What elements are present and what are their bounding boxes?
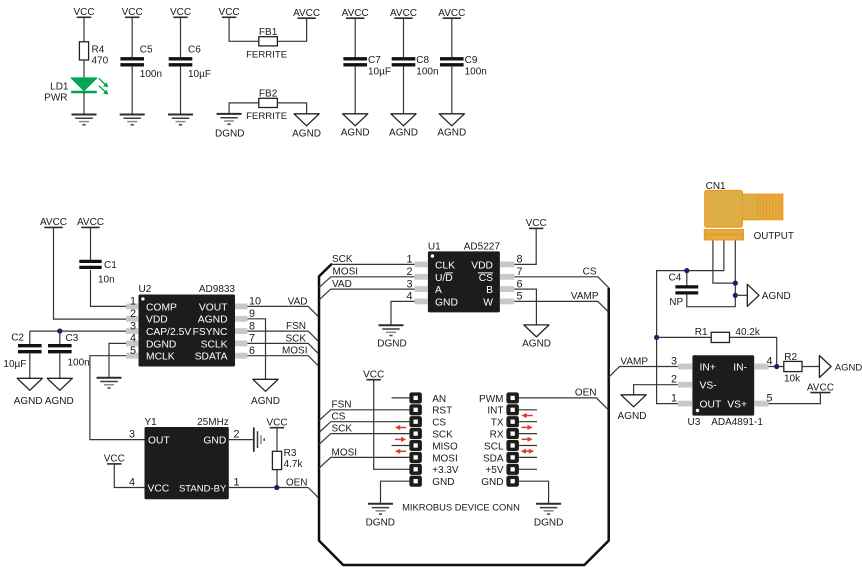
wire R2 to AGND — [802, 366, 819, 368]
svg-text:VCC: VCC — [363, 370, 384, 381]
svg-text:VAD: VAD — [332, 279, 352, 290]
svg-text:Y1: Y1 — [145, 417, 158, 428]
power net AVCC (U3 VS+) — [769, 382, 834, 403]
label mikrobus device conn — [402, 502, 520, 513]
svg-text:STAND-BY: STAND-BY — [179, 484, 227, 495]
svg-text:SDA: SDA — [483, 453, 504, 464]
svg-text:10k: 10k — [784, 373, 801, 384]
power net VCC (Y1) — [104, 454, 145, 488]
wire R4 to LED — [83, 60, 85, 78]
svg-text:AGND: AGND — [251, 396, 280, 407]
svg-text:AGND: AGND — [45, 396, 74, 407]
U2 pin stubs — [126, 304, 247, 359]
wire R1 to IN- — [730, 337, 777, 366]
connector CN1 SMA — [704, 181, 794, 242]
ground DGND (FB2 left) — [215, 114, 244, 139]
wire C1 to U2 pin1 — [91, 270, 127, 307]
svg-text:DGND: DGND — [534, 518, 563, 529]
svg-text:VCC: VCC — [170, 7, 191, 18]
svg-text:CLK: CLK — [435, 260, 455, 271]
ground (C6 column) — [168, 115, 193, 125]
ground AGND (C8 column) — [389, 114, 418, 139]
ground (C5 column) — [120, 115, 145, 125]
svg-text:DGND: DGND — [215, 128, 244, 139]
wire R3 to OEN node — [276, 470, 278, 488]
ground (Y1 GND) — [254, 427, 264, 451]
capacitor C3 100n — [48, 331, 90, 368]
svg-text:VAMP: VAMP — [620, 356, 648, 367]
svg-text:GND: GND — [432, 477, 454, 488]
net VAMP (U1 W to bus) — [514, 291, 608, 312]
svg-text:AGND: AGND — [389, 127, 418, 138]
svg-text:VCC: VCC — [73, 7, 94, 18]
ground (U2 DGND) — [97, 378, 122, 388]
wire U2 DGND pin4 — [109, 343, 126, 377]
svg-text:AVCC: AVCC — [77, 217, 104, 228]
svg-text:B: B — [486, 285, 493, 296]
svg-text:MOSI: MOSI — [332, 447, 358, 458]
capacitor C1 10n — [79, 260, 117, 286]
arrow SPI in (left) — [395, 425, 406, 430]
power net AVCC (C7 column) — [342, 8, 369, 57]
wire U1 B to AGND — [514, 289, 536, 325]
svg-text:U3: U3 — [688, 417, 701, 428]
svg-text:FB2: FB2 — [259, 89, 278, 100]
svg-text:C5: C5 — [140, 44, 153, 55]
svg-text:+5V: +5V — [485, 465, 503, 476]
IC op-amp U3 ADA4891-1 — [688, 355, 764, 428]
svg-text:C7: C7 — [368, 55, 381, 66]
Y1 pin numbers — [129, 429, 240, 489]
header left pin names — [432, 394, 459, 488]
power net VCC (C6 column) — [170, 7, 191, 57]
wire DGND to FB2 — [229, 103, 259, 114]
U2 pin numbers — [130, 296, 261, 357]
svg-text:CS: CS — [479, 273, 493, 284]
wire U1 GND pin4 — [391, 301, 415, 325]
net VAMP (bus to U3 IN+) — [609, 356, 678, 377]
svg-text:3: 3 — [129, 429, 135, 441]
ground AGND (R2) — [819, 356, 862, 378]
node R1 junction — [654, 335, 659, 340]
net SCK (U2 SCLK) — [247, 333, 319, 354]
wire FB2 to AGND — [277, 103, 306, 114]
svg-text:AVCC: AVCC — [390, 8, 417, 19]
svg-text:DGND: DGND — [366, 518, 395, 529]
svg-text:MCLK: MCLK — [146, 352, 175, 363]
power net AVCC (C8 column) — [390, 8, 417, 57]
svg-text:CN1: CN1 — [706, 181, 726, 192]
ground AGND (FB2 right) — [292, 114, 321, 140]
svg-text:FB1: FB1 — [259, 27, 278, 38]
svg-text:FSN: FSN — [332, 400, 352, 411]
svg-text:AGND: AGND — [341, 127, 370, 138]
svg-text:W: W — [483, 297, 493, 308]
svg-text:1: 1 — [671, 392, 677, 404]
resistor R3 4.7k — [272, 448, 303, 470]
svg-text:DGND: DGND — [377, 338, 406, 349]
svg-text:VCC: VCC — [104, 454, 125, 465]
svg-text:NP: NP — [669, 297, 683, 308]
arrow SPI in2 (left) — [395, 449, 406, 454]
svg-text:AD5227: AD5227 — [464, 241, 501, 252]
arrow SDA (right) — [521, 449, 534, 454]
ground AGND (U3 VS-) — [618, 395, 647, 422]
net CS (bus to CS) — [319, 412, 409, 433]
svg-text:ADA4891-1: ADA4891-1 — [711, 417, 763, 428]
wire LED to ground — [83, 92, 85, 115]
ground DGND (U1) — [377, 325, 406, 349]
capacitor C9 100n — [440, 55, 487, 78]
arrow RX (right) — [522, 437, 533, 442]
wire U2 AGND pin9 — [247, 319, 265, 380]
ground AGND (C3) — [45, 378, 74, 407]
power net VCC (C5 column) — [122, 7, 143, 57]
wire C6 to ground — [180, 66, 182, 115]
svg-text:C6: C6 — [188, 44, 201, 55]
svg-text:5: 5 — [130, 345, 136, 357]
LED LD1 PWR — [44, 78, 108, 104]
resistor R4 — [79, 42, 108, 67]
svg-text:C1: C1 — [104, 260, 117, 271]
power net VCC (U1 VDD) — [514, 218, 546, 264]
svg-text:1: 1 — [234, 476, 240, 488]
svg-text:2: 2 — [130, 308, 136, 320]
svg-text:MISO: MISO — [432, 441, 458, 452]
power net AVCC (to C1/COMP) — [77, 217, 104, 260]
U2 pin names — [146, 302, 228, 362]
svg-text:4.7k: 4.7k — [284, 459, 304, 470]
svg-text:AN: AN — [432, 394, 446, 405]
net SCK (bus to U1 CLK) — [331, 254, 414, 265]
svg-text:AGND: AGND — [198, 315, 228, 326]
IC U2 AD9833 — [139, 284, 236, 367]
svg-text:CS: CS — [583, 266, 597, 277]
svg-text:GND: GND — [203, 436, 226, 447]
svg-text:RX: RX — [490, 430, 504, 441]
svg-text:SCK: SCK — [285, 333, 306, 344]
svg-text:470: 470 — [92, 56, 109, 67]
net MOSI (U2 SDATA) — [247, 346, 319, 367]
wire C5 to ground — [131, 66, 133, 115]
svg-text:SCK: SCK — [332, 424, 353, 435]
wire C8 to AGND — [403, 66, 405, 114]
ground AGND (U1 B) — [522, 325, 551, 350]
node OEN junction — [274, 485, 279, 490]
net VAD (U2 VOUT) — [247, 296, 319, 317]
ground DGND (right header) — [534, 504, 563, 529]
svg-text:AVCC: AVCC — [342, 8, 369, 19]
svg-text:AGND: AGND — [835, 362, 862, 373]
svg-text:MOSI: MOSI — [432, 453, 458, 464]
svg-text:U1: U1 — [428, 241, 441, 252]
svg-text:PWR: PWR — [44, 93, 67, 104]
wire CN1 left pin — [713, 240, 735, 283]
ground AGND (C9 column) — [437, 114, 466, 139]
U1 pin stubs — [415, 262, 515, 305]
svg-text:100n: 100n — [140, 69, 162, 80]
svg-text:40.2k: 40.2k — [735, 327, 760, 338]
IC U1 AD5227 — [428, 241, 500, 312]
svg-text:SCK: SCK — [332, 254, 353, 265]
capacitor C2 10uF — [3, 331, 41, 370]
power net VCC (R3) — [266, 418, 287, 452]
arrow SPI out (left) — [395, 437, 406, 442]
svg-text:FERRITE: FERRITE — [246, 50, 287, 61]
svg-text:VAMP: VAMP — [571, 291, 599, 302]
header mikrobus right (PWM..GND) — [506, 392, 519, 486]
svg-text:AGND: AGND — [14, 396, 43, 407]
U1 pin names — [435, 260, 493, 308]
svg-text:VDD: VDD — [471, 260, 493, 271]
ground AGND (U2 pin9) — [251, 379, 280, 407]
svg-text:R4: R4 — [92, 44, 105, 55]
wire header GND to DGND — [381, 481, 410, 504]
svg-text:CS: CS — [332, 412, 346, 423]
U3 pin stubs — [678, 364, 769, 407]
node IN- junction — [774, 364, 779, 369]
wire C4 bottom to shield — [687, 240, 736, 307]
svg-text:A: A — [435, 285, 442, 296]
wire U2 MCLK to Y1 OUT — [90, 356, 145, 440]
svg-text:GND: GND — [481, 477, 503, 488]
svg-text:U2: U2 — [139, 284, 152, 295]
svg-text:4: 4 — [130, 333, 136, 345]
svg-text:IN+: IN+ — [700, 363, 716, 374]
svg-text:OEN: OEN — [575, 387, 597, 398]
U3 pin names — [700, 363, 748, 411]
svg-text:MOSI: MOSI — [282, 346, 308, 357]
wire U3 OUT feedback — [657, 271, 724, 404]
net MOSI (bus to U1 U/D) — [319, 267, 415, 288]
svg-text:FERRITE: FERRITE — [246, 111, 287, 122]
node C4 top junction — [684, 268, 689, 273]
svg-text:OUT: OUT — [148, 436, 170, 447]
wire AN stub — [392, 397, 410, 399]
svg-text:2: 2 — [671, 374, 677, 386]
svg-text:C9: C9 — [465, 55, 478, 66]
wire C2 to AGND — [29, 354, 31, 379]
mikrobus device outline (bus) — [319, 264, 609, 565]
svg-text:AVCC: AVCC — [40, 217, 67, 228]
header right stub wires — [519, 410, 537, 470]
svg-text:10µF: 10µF — [188, 69, 211, 80]
svg-text:C4: C4 — [669, 272, 682, 283]
svg-text:OEN: OEN — [286, 477, 308, 488]
svg-text:C8: C8 — [416, 55, 429, 66]
svg-text:SCLK: SCLK — [201, 339, 228, 350]
net OEN (Y1 STAND-BY) — [229, 477, 319, 498]
net FSN (U2 FSYNC) — [247, 321, 319, 342]
svg-text:VAD: VAD — [288, 296, 308, 307]
svg-text:CS: CS — [432, 418, 446, 429]
wire shield to AGND — [735, 294, 747, 296]
arrow INT (right) — [522, 413, 533, 418]
ferrite bead FB2 — [246, 89, 287, 122]
wire U2 CAP/2.5V to C2 C3 — [30, 330, 126, 332]
net OEN (PWM to bus) — [519, 387, 609, 410]
net FSN (bus to RST) — [319, 400, 409, 421]
net VAD (bus to U1 A) — [319, 279, 415, 300]
power net AVCC (to U2 VDD) — [40, 217, 126, 319]
wire C3 to AGND — [59, 354, 61, 379]
oscillator Y1 25MHz — [145, 417, 229, 499]
svg-text:AVCC: AVCC — [807, 382, 834, 393]
svg-text:R2: R2 — [784, 352, 797, 363]
svg-text:VDD: VDD — [146, 315, 168, 326]
svg-text:VCC: VCC — [219, 7, 240, 18]
resistor R2 10k — [784, 352, 802, 384]
wire C9 to AGND — [451, 66, 453, 114]
ground (LED column) — [72, 115, 97, 125]
svg-text:AD9833: AD9833 — [199, 284, 236, 295]
header right pin names — [479, 394, 504, 488]
node shield junction A — [733, 281, 738, 286]
wire C7 to AGND — [354, 66, 356, 114]
power net AVCC (C9 column) — [438, 8, 465, 57]
ground AGND (C2) — [14, 378, 43, 407]
svg-text:CAP/2.5V: CAP/2.5V — [146, 327, 191, 338]
svg-text:LD1: LD1 — [50, 81, 69, 92]
capacitor C7 10µF — [343, 55, 391, 78]
wire U3 VS- to AGND — [634, 385, 678, 395]
svg-text:10µF: 10µF — [368, 67, 391, 78]
svg-text:AVCC: AVCC — [293, 8, 320, 19]
svg-text:R3: R3 — [284, 448, 297, 459]
svg-text:R1: R1 — [695, 327, 708, 338]
net SCK (bus to SCK) — [319, 424, 409, 445]
wire Y1 GND pin2 — [229, 439, 253, 441]
svg-text:TX: TX — [491, 418, 504, 429]
wire MISO stub — [392, 445, 410, 447]
wire header GND right to DGND — [519, 481, 549, 504]
power net VCC (header +3.3V) — [363, 370, 409, 470]
capacitor C5 100n — [120, 44, 162, 80]
svg-text:4: 4 — [129, 476, 135, 488]
capacitor C4 NP — [669, 271, 699, 308]
wire U3 IN- pin4 — [769, 366, 784, 368]
svg-text:GND: GND — [435, 297, 458, 308]
svg-text:VCC: VCC — [266, 418, 287, 429]
svg-text:VS+: VS+ — [727, 400, 747, 411]
svg-text:MOSI: MOSI — [333, 267, 359, 278]
svg-text:U/D: U/D — [435, 273, 453, 284]
svg-text:PWM: PWM — [479, 394, 503, 405]
svg-text:C2: C2 — [11, 332, 24, 343]
svg-text:MIKROBUS DEVICE CONN: MIKROBUS DEVICE CONN — [402, 502, 520, 513]
svg-text:10n: 10n — [98, 274, 115, 285]
arrow TX (right) — [522, 425, 533, 430]
svg-text:OUT: OUT — [700, 400, 722, 411]
svg-text:AGND: AGND — [292, 128, 321, 139]
net MOSI (bus to MOSI) — [319, 447, 409, 468]
svg-text:25MHz: 25MHz — [197, 417, 229, 428]
ground AGND (C7 column) — [341, 114, 370, 139]
svg-text:100n: 100n — [68, 358, 90, 369]
svg-text:5: 5 — [767, 392, 773, 404]
svg-text:FSN: FSN — [286, 321, 306, 332]
svg-text:SDATA: SDATA — [195, 352, 228, 363]
U1 pin numbers — [406, 254, 522, 303]
svg-text:RST: RST — [432, 406, 452, 417]
svg-text:C3: C3 — [66, 333, 79, 344]
svg-text:2: 2 — [234, 429, 240, 441]
svg-text:3: 3 — [130, 320, 136, 332]
power net AVCC (FB1) — [277, 8, 320, 41]
svg-text:VOUT: VOUT — [199, 302, 228, 313]
svg-text:VCC: VCC — [148, 484, 170, 495]
svg-text:AGND: AGND — [437, 127, 466, 138]
power net VCC (LED column) — [73, 7, 94, 42]
node C3 junction — [57, 329, 62, 334]
svg-text:100n: 100n — [416, 67, 438, 78]
svg-text:OUTPUT: OUTPUT — [754, 231, 794, 242]
wire CN1 center pin — [723, 240, 725, 271]
svg-text:1: 1 — [130, 296, 136, 308]
capacitor C8 100n — [392, 55, 439, 78]
svg-text:DGND: DGND — [146, 339, 176, 350]
svg-text:AGND: AGND — [522, 338, 551, 349]
svg-text:10µF: 10µF — [3, 359, 26, 370]
svg-text:+3.3V: +3.3V — [432, 465, 459, 476]
svg-text:AGND: AGND — [762, 291, 791, 302]
svg-text:3: 3 — [671, 355, 677, 367]
resistor R1 40.2k — [657, 327, 761, 342]
node shield junction B — [733, 293, 738, 298]
capacitor C6 10uF — [169, 44, 211, 80]
ground DGND (left header) — [366, 504, 395, 529]
net CS (U1 to bus) — [514, 266, 608, 287]
svg-text:VS-: VS- — [700, 381, 717, 392]
power net VCC (FB1) — [219, 7, 259, 41]
ground AGND (CN1) — [747, 284, 790, 306]
svg-text:FSYNC: FSYNC — [193, 327, 228, 338]
svg-text:COMP: COMP — [146, 302, 177, 313]
header mikrobus left (AN..GND) — [409, 392, 422, 486]
svg-text:IN-: IN- — [733, 363, 747, 374]
svg-text:VCC: VCC — [526, 218, 547, 229]
U3 pin numbers — [671, 355, 773, 404]
svg-text:4: 4 — [767, 355, 773, 367]
svg-text:100n: 100n — [465, 67, 487, 78]
ferrite bead FB1 — [246, 27, 287, 61]
svg-text:SCL: SCL — [484, 441, 504, 452]
svg-text:SCK: SCK — [432, 430, 453, 441]
svg-text:INT: INT — [487, 406, 503, 417]
svg-text:AGND: AGND — [618, 411, 647, 422]
svg-text:VCC: VCC — [122, 7, 143, 18]
svg-text:AVCC: AVCC — [438, 8, 465, 19]
